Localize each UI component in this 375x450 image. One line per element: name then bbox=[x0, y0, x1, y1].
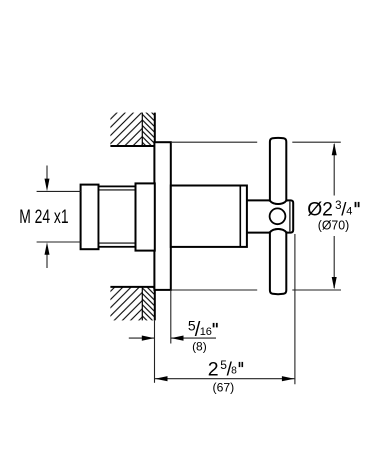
svg-text:(Ø70): (Ø70) bbox=[318, 219, 350, 233]
wall face extension line below bbox=[154, 320, 156, 382]
svg-text:Ø2: Ø2 bbox=[307, 200, 333, 221]
hub-bar bottom fillet bbox=[270, 229, 287, 233]
dia70 top arrow bbox=[332, 143, 337, 155]
handle bar lower half bbox=[270, 231, 286, 294]
dia70 bottom extension line bbox=[171, 289, 257, 291]
svg-text:(8): (8) bbox=[192, 339, 207, 353]
svg-text:8: 8 bbox=[231, 366, 237, 377]
dia70 dimension line bbox=[333, 144, 335, 196]
valve body front flange line bbox=[239, 186, 241, 247]
dia70 bottom arrow bbox=[332, 277, 337, 289]
wall bottom opening edge bbox=[110, 286, 155, 288]
valve body bbox=[171, 186, 247, 247]
escutcheon front extension line below bbox=[170, 290, 172, 344]
svg-text:16: 16 bbox=[200, 326, 212, 338]
in-wall collar bbox=[136, 183, 155, 250]
front spoke circle bbox=[270, 208, 286, 224]
wall top section hatch (left band) bbox=[110, 113, 142, 147]
M24 top arrow bbox=[46, 166, 48, 181]
threaded nipple M24x1 bbox=[99, 186, 136, 246]
wall top opening edge bbox=[110, 145, 155, 147]
handle hub (horizontal cylinder) bbox=[247, 200, 293, 232]
wall bottom hatch separator line bbox=[141, 287, 143, 320]
thread crest line top bbox=[99, 189, 136, 191]
handle bar upper half bbox=[270, 138, 286, 202]
wall bottom section hatch (right tile band) bbox=[142, 287, 154, 320]
2 5/8 right arrow bbox=[282, 376, 295, 381]
wall top section hatch (right tile band) bbox=[142, 113, 154, 147]
svg-text:2: 2 bbox=[208, 359, 219, 381]
escutcheon plate (side view) bbox=[154, 142, 170, 290]
svg-text:(67): (67) bbox=[213, 380, 235, 394]
5/16 left arrow line bbox=[129, 337, 155, 339]
5/16 right arrow line bbox=[171, 337, 216, 339]
rear thread flange bbox=[81, 185, 99, 250]
wall bottom section hatch (left band) bbox=[110, 287, 142, 320]
M24 top dimension line bbox=[37, 190, 81, 192]
thread crest line bottom bbox=[99, 242, 136, 244]
hub-bar top fillet bbox=[270, 200, 287, 204]
2 5/8 left arrow bbox=[155, 376, 168, 381]
dia70 top extension line bbox=[171, 141, 257, 143]
M24 bottom dimension line bbox=[37, 241, 81, 243]
hub end inner ring line bbox=[289, 202, 291, 232]
hub end extension line below bbox=[294, 234, 296, 384]
2 5/8 dimension line bbox=[155, 378, 294, 380]
wall face line bbox=[154, 113, 156, 321]
M24 bottom arrow bbox=[46, 254, 48, 269]
wall top hatch separator line bbox=[141, 113, 143, 147]
svg-text:M 24 x1: M 24 x1 bbox=[19, 207, 68, 228]
svg-text:4: 4 bbox=[346, 206, 352, 218]
